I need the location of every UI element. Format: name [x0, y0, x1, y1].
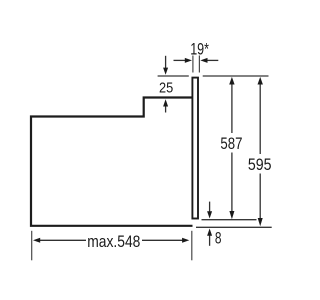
svg-text:19*: 19*: [190, 41, 209, 59]
dim 19* right arrow: [200, 58, 218, 63]
dim 8 up arrow: [207, 229, 212, 246]
dim max.548 line with arrows: [33, 238, 189, 243]
dim 19* left arrow: [174, 58, 193, 63]
dim max.548 extension line right: [191, 231, 193, 260]
svg-text:25: 25: [159, 78, 173, 95]
svg-text:587: 587: [220, 135, 242, 154]
dim 587 vertical line: [229, 77, 234, 219]
dim 19* extension line right: [198, 56, 200, 73]
bottom line 1 (oven body bottom): [202, 219, 257, 221]
dim 25 up arrow: [163, 99, 168, 112]
svg-text:595: 595: [248, 156, 272, 174]
top reference line right: [203, 75, 269, 77]
bottom line 2 (front panel bottom): [196, 226, 272, 228]
oven front panel: [192, 78, 198, 219]
dim 595 vertical line: [258, 77, 263, 226]
cabinet outline: [31, 98, 193, 226]
dim 8 down arrow: [207, 202, 212, 219]
svg-text:max.548: max.548: [87, 233, 140, 251]
top reference line left: [158, 75, 189, 77]
dim 19* extension line left: [192, 56, 194, 73]
dim max.548 extension line left: [31, 231, 33, 260]
svg-text:8: 8: [215, 230, 222, 248]
dim 25 down arrow: [163, 56, 168, 75]
